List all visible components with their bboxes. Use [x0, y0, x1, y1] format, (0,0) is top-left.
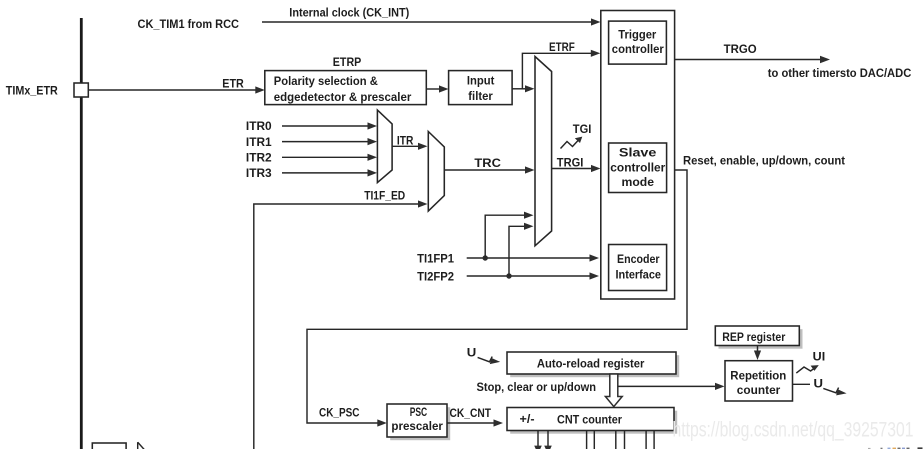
wire ITR0 [282, 125, 368, 127]
svg-text:Encoder: Encoder [617, 252, 660, 266]
hollow arrow auto-reload to CNT counter [605, 374, 622, 407]
svg-text:TRGO: TRGO [724, 42, 757, 56]
svg-text:TI1F_ED: TI1F_ED [364, 189, 405, 203]
block: REP register (with shadow) [719, 329, 803, 349]
block: TI1 input stage (cut off at bottom) [92, 443, 126, 449]
svg-text:REP register: REP register [722, 330, 785, 344]
wire CC3 down pair [615, 431, 617, 449]
svg-text:U: U [814, 377, 824, 391]
wire TRGI [552, 168, 592, 170]
wire ITR output [392, 145, 418, 147]
svg-text:CK_PSC: CK_PSC [319, 406, 360, 420]
svg-text:Reset, enable, up/down, count: Reset, enable, up/down, count [683, 153, 845, 167]
block: Polarity selection & edge detector & prescaler [265, 71, 427, 105]
svg-text:Polarity selection &: Polarity selection & [274, 74, 378, 88]
svg-text:https://blog.csdn.net/qq_39257: https://blog.csdn.net/qq_39257301 [673, 419, 914, 442]
event arrow TGI (zigzag) [561, 140, 579, 149]
svg-text:TRC: TRC [474, 156, 501, 170]
svg-text:Slave: Slave [619, 146, 657, 160]
wire CK_INT to trigger controller [262, 21, 592, 23]
svg-text:to other timersto DAC/ADC: to other timersto DAC/ADC [768, 66, 912, 80]
svg-text:CK_CNT: CK_CNT [450, 406, 492, 420]
block: CNT counter (with shadow) [510, 411, 677, 434]
wire CC4 down pair [645, 431, 647, 449]
svg-text:TI2FP2: TI2FP2 [417, 269, 454, 283]
mux: TRC selector [428, 132, 444, 212]
svg-text:ETR: ETR [222, 77, 244, 91]
node junction on TI2FP2 [506, 273, 511, 278]
watermark corner sliver [868, 447, 923, 449]
event arrow U (zigzag) [823, 388, 838, 393]
svg-text:Trigger: Trigger [618, 27, 656, 41]
wire REP register to repetition counter [757, 346, 759, 352]
svg-text:Internal clock (CK_INT): Internal clock (CK_INT) [289, 6, 409, 20]
svg-text:ETRP: ETRP [333, 55, 362, 69]
svg-text:counter: counter [737, 383, 781, 397]
svg-text:ITR2: ITR2 [246, 151, 272, 165]
svg-text:mode: mode [622, 175, 655, 189]
svg-text:Auto-reload register: Auto-reload register [537, 357, 645, 371]
svg-text:PSC: PSC [410, 405, 428, 419]
wire TI2FP2 branch to mux [509, 226, 525, 276]
svg-text:TRGI: TRGI [557, 155, 584, 169]
svg-text:CK_TIM1 from RCC: CK_TIM1 from RCC [138, 17, 240, 31]
wire CC2 down pair [586, 431, 588, 449]
block: Slave controller mode [609, 143, 667, 193]
svg-text:TIMx_ETR: TIMx_ETR [6, 83, 58, 97]
wire slave controller to prescaler (reset/enable loop) [307, 170, 687, 423]
wire TI1FP1 branch to mux [485, 215, 524, 258]
event arrow to auto-reload (zigzag) [478, 357, 493, 362]
wire CK_CNT [447, 422, 494, 424]
wire TI1F_ED (from bottom input stage) [254, 204, 419, 449]
wire input filter to ETR mux input [512, 88, 525, 90]
svg-text:+/-: +/- [520, 412, 535, 426]
svg-text:Input: Input [467, 73, 495, 87]
svg-text:ETRF: ETRF [549, 40, 575, 54]
wire ITR2 [282, 156, 368, 158]
svg-text:TI1FP1: TI1FP1 [417, 251, 454, 265]
mux: ITR selector [377, 110, 392, 183]
wire TI1FP1 [467, 257, 590, 259]
block: Encoder Interface [609, 245, 667, 291]
svg-text:prescaler: prescaler [391, 419, 443, 433]
left pin rail (thick vertical line) [80, 18, 83, 449]
mux: TI1 edge selector (cut off) [137, 442, 139, 449]
svg-text:CNT counter: CNT counter [557, 412, 622, 426]
wire U out of repetition counter [793, 383, 811, 385]
wire ITR3 [282, 172, 368, 174]
svg-text:ITR0: ITR0 [246, 119, 272, 133]
wire update to repetition counter [618, 385, 716, 387]
wire ETRF branch up [522, 53, 591, 89]
block: Repetition counter [725, 361, 793, 401]
wire ITR1 [282, 141, 368, 143]
svg-text:filter: filter [468, 89, 493, 103]
block: controller outer box [601, 11, 675, 300]
wire TI2FP2 [467, 275, 590, 277]
svg-text:edgedetector & prescaler: edgedetector & prescaler [274, 90, 412, 104]
wire TRC [444, 169, 525, 171]
wire TRGO [675, 59, 821, 61]
svg-text:Interface: Interface [616, 267, 662, 281]
node TIMx_ETR pad [74, 83, 88, 97]
svg-text:U: U [467, 345, 477, 359]
event arrow UI (zigzag) [796, 367, 814, 373]
svg-text:controller: controller [610, 160, 665, 174]
svg-text:ITR: ITR [397, 134, 414, 148]
wire ETR [88, 89, 256, 91]
wire polarity to input filter [426, 88, 439, 90]
wire CC1 down pair with arrows [537, 431, 539, 447]
svg-text:controller: controller [612, 42, 664, 56]
mux: trigger input selector (large) [535, 57, 552, 246]
svg-text:Stop, clear or up/down: Stop, clear or up/down [477, 380, 597, 394]
svg-text:ITR1: ITR1 [246, 135, 272, 149]
svg-text:ITR3: ITR3 [246, 166, 272, 180]
node junction on TI1FP1 [483, 255, 488, 260]
block: Auto-reload register (with shadow) [510, 355, 679, 377]
svg-text:Repetition: Repetition [730, 368, 786, 382]
block: Input filter [449, 71, 512, 105]
svg-text:UI: UI [813, 350, 826, 364]
svg-text:TGI: TGI [573, 122, 592, 136]
block: PSC prescaler (with shadow) [390, 407, 450, 440]
block: Trigger controller [609, 21, 667, 64]
